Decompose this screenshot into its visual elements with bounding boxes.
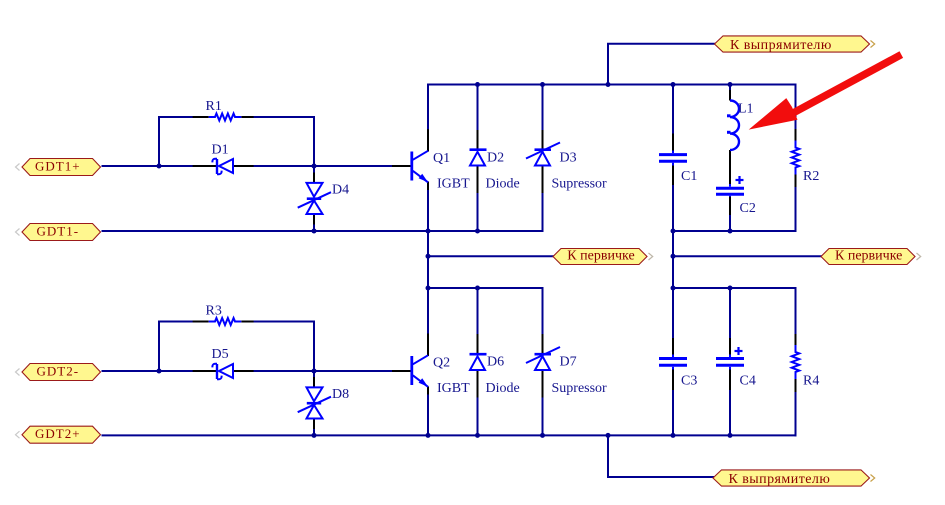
pin Q1 collector bbox=[427, 129, 429, 151]
wire D3 top bbox=[542, 85, 544, 131]
wire Q1 emitter lower bbox=[427, 190, 429, 231]
wire D2 top bbox=[477, 85, 479, 131]
pin D1 right bbox=[233, 165, 254, 167]
wire Q1 collector upper bbox=[427, 85, 429, 130]
node bus3 C4 bbox=[728, 286, 733, 291]
pin L1 top bbox=[729, 90, 731, 101]
node y231 C2 bbox=[728, 229, 733, 234]
diode D6 bbox=[470, 354, 487, 370]
wire to right pervichka flag bbox=[673, 255, 821, 257]
node GDT2+ flag bbox=[16, 426, 101, 443]
wire D8 bottom to GDT2+ net bbox=[313, 429, 315, 435]
pin Q1 emitter bbox=[427, 182, 429, 191]
node pervichka right bbox=[671, 254, 676, 259]
svg-text:GDT1-: GDT1- bbox=[37, 223, 80, 238]
wire L1 top bbox=[729, 85, 731, 91]
wire R2 bottom bbox=[795, 187, 797, 231]
svg-text:IGBT: IGBT bbox=[437, 177, 470, 192]
node bus4 C4 bbox=[728, 433, 733, 438]
svg-text:C3: C3 bbox=[681, 374, 697, 389]
pin L1 bottom joins C2 top bbox=[729, 150, 731, 186]
wire R1 loop top right bbox=[254, 116, 314, 118]
wire R4 bottom bbox=[795, 392, 797, 435]
suppressor D3 bbox=[526, 143, 560, 166]
wire D6 bottom bbox=[477, 398, 479, 436]
node K vypryamitelyu bottom flag bbox=[713, 470, 875, 486]
wire GDT2- net to D5 bbox=[103, 370, 193, 372]
pin D6 top bbox=[477, 334, 479, 354]
pin R2 top bbox=[795, 129, 797, 141]
wire C2 bottom bbox=[729, 215, 731, 231]
pin D5 right bbox=[233, 370, 254, 372]
node GDT1+ D4 bbox=[312, 164, 317, 169]
node y231 C1 bbox=[671, 229, 676, 234]
svg-text:GDT2-: GDT2- bbox=[37, 363, 80, 378]
resistor R3 bbox=[209, 318, 242, 325]
wire R3 loop top left bbox=[159, 321, 193, 323]
diode D1 bbox=[212, 159, 233, 174]
svg-text:D1: D1 bbox=[212, 143, 229, 158]
svg-text:D7: D7 bbox=[560, 355, 577, 370]
pin D3 bottom bbox=[542, 166, 544, 194]
wire GDT2+ bottom bus bbox=[103, 434, 796, 436]
pin C4 bottom bbox=[729, 368, 731, 391]
node GDT2- flag bbox=[16, 364, 101, 381]
node bus4 C3 bbox=[671, 433, 676, 438]
node bus3 C3 bbox=[671, 286, 676, 291]
pin C3 top bbox=[672, 338, 674, 356]
wire D3 bottom bbox=[542, 193, 544, 231]
wire riser to bottom flag bbox=[608, 435, 713, 477]
node bus3 Q2 bbox=[426, 286, 431, 291]
capacitor C4 polarized bbox=[716, 347, 744, 370]
pin C3 bottom bbox=[672, 368, 674, 391]
diode D2 bbox=[470, 150, 487, 166]
svg-text:D2: D2 bbox=[487, 151, 504, 166]
node bus4 D7 bbox=[540, 433, 545, 438]
pin Q2 collector bbox=[427, 334, 429, 357]
wire C4 bottom bbox=[729, 390, 731, 435]
wire riser to top flag bbox=[608, 44, 715, 85]
node GDT2- D8 bbox=[312, 369, 317, 374]
transistor Q2 bbox=[412, 355, 428, 387]
capacitor C1 bbox=[659, 151, 687, 166]
svg-text:C2: C2 bbox=[740, 201, 756, 216]
svg-text:D6: D6 bbox=[487, 355, 504, 370]
svg-text:Q1: Q1 bbox=[433, 151, 450, 166]
wire D1 to Q1 base bbox=[254, 165, 392, 167]
wire R1 loop right vertical down to D4 bbox=[313, 117, 315, 173]
svg-text:К первичке: К первичке bbox=[567, 248, 634, 263]
svg-text:К первичке: К первичке bbox=[835, 248, 902, 263]
node GDT2- R3 bbox=[157, 369, 162, 374]
pin C4 top bbox=[729, 338, 731, 356]
svg-text:Diode: Diode bbox=[486, 381, 520, 396]
svg-text:R4: R4 bbox=[803, 374, 819, 389]
suppressor D7 bbox=[526, 347, 560, 370]
svg-text:Supressor: Supressor bbox=[552, 381, 608, 396]
diode D5 bbox=[212, 364, 233, 379]
wire C1 top bbox=[672, 85, 674, 134]
pin D3 top bbox=[542, 130, 544, 150]
node bus4 D6 bbox=[475, 433, 480, 438]
suppressor D8 bbox=[298, 387, 331, 418]
wire right bridge vertical 673 bbox=[672, 231, 674, 288]
wire D5 to Q2 base bbox=[254, 370, 392, 372]
wire R3 loop right vertical down to D8 bbox=[313, 322, 315, 378]
node K vypryamitelyu top flag bbox=[715, 36, 875, 52]
wire R2 top bbox=[795, 85, 797, 130]
node bus4 D8 bbox=[312, 433, 317, 438]
pin R1 left bbox=[193, 116, 209, 118]
pin D8 top bbox=[313, 377, 315, 388]
annotation red arrow bbox=[749, 55, 902, 130]
svg-text:R2: R2 bbox=[803, 169, 819, 184]
pin R1 right bbox=[241, 116, 253, 118]
node top bus riser bbox=[606, 82, 611, 87]
wire Q2 collector upper bbox=[427, 288, 429, 334]
svg-text:D5: D5 bbox=[212, 347, 229, 362]
wire R1 loop left vertical bbox=[158, 117, 160, 166]
node bus4 riser bbox=[606, 433, 611, 438]
wire R3 loop top right bbox=[254, 321, 314, 323]
node top bus D2 bbox=[475, 82, 480, 87]
node GDT1+ flag bbox=[16, 159, 101, 176]
pin D1 left bbox=[193, 165, 216, 167]
pin D5 left bbox=[193, 370, 216, 372]
svg-text:IGBT: IGBT bbox=[437, 381, 470, 396]
wire R4 top bbox=[795, 288, 797, 334]
svg-text:C1: C1 bbox=[681, 169, 697, 184]
node GDT1- flag bbox=[16, 224, 101, 241]
transistor Q1 bbox=[412, 151, 428, 183]
svg-text:D8: D8 bbox=[332, 387, 349, 402]
pin D4 top bbox=[313, 173, 315, 184]
capacitor C3 bbox=[659, 355, 687, 370]
wire top bus bbox=[428, 84, 796, 86]
svg-text:L1: L1 bbox=[738, 102, 754, 117]
node GDT1- D2 bbox=[475, 229, 480, 234]
wire D7 bottom bbox=[542, 398, 544, 436]
wire R3 loop left vertical bbox=[158, 322, 160, 372]
wire left bridge vertical 428 bbox=[427, 231, 429, 288]
pin D6 bottom bbox=[477, 370, 479, 398]
node top bus C1 bbox=[671, 82, 676, 87]
wire GDT1- bus bbox=[103, 230, 543, 232]
pin Q2 base bbox=[392, 370, 411, 372]
wire D6 top bbox=[477, 288, 479, 334]
pin R3 left bbox=[193, 321, 209, 323]
node bus4 Q2 emitter bbox=[426, 433, 431, 438]
svg-text:GDT1+: GDT1+ bbox=[35, 158, 81, 173]
inductor L1 bbox=[727, 101, 739, 151]
resistor R2 bbox=[792, 141, 800, 175]
pin R3 right bbox=[241, 321, 253, 323]
svg-text:К выпрямителю: К выпрямителю bbox=[730, 38, 832, 53]
node top bus L1 bbox=[728, 82, 733, 87]
pin R2 bottom bbox=[795, 175, 797, 188]
wire C1 bottom bbox=[672, 185, 674, 231]
suppressor D4 bbox=[298, 183, 331, 214]
pin D7 top bbox=[542, 334, 544, 354]
node pervichka left bbox=[426, 254, 431, 259]
svg-text:D4: D4 bbox=[332, 183, 349, 198]
node GDT1+ R1 bbox=[157, 164, 162, 169]
wire R1 loop top left bbox=[159, 116, 193, 118]
wire C-bus right y231 bbox=[673, 230, 796, 232]
pin D4 bottom bbox=[313, 214, 315, 225]
wire D2 bottom bbox=[477, 193, 479, 231]
pin D2 bottom bbox=[477, 166, 479, 194]
node top bus D3 bbox=[540, 82, 545, 87]
svg-text:К выпрямителю: К выпрямителю bbox=[729, 472, 831, 487]
wire D7 top bbox=[542, 288, 544, 334]
pin Q2 emitter bbox=[427, 387, 429, 395]
pin C1 top bbox=[672, 134, 674, 152]
pin D8 bottom bbox=[313, 419, 315, 430]
wire GDT1+ net to D1 bbox=[103, 165, 193, 167]
svg-text:Q2: Q2 bbox=[433, 356, 450, 371]
svg-text:GDT2+: GDT2+ bbox=[35, 426, 81, 441]
pin C1 bottom bbox=[672, 164, 674, 185]
node GDT1- Q1 emitter bbox=[426, 229, 431, 234]
svg-text:D3: D3 bbox=[560, 151, 577, 166]
wire C3 top bbox=[672, 288, 674, 338]
node GDT1- D4 bbox=[312, 229, 317, 234]
pin D2 top bbox=[477, 130, 479, 150]
node K pervichke right flag bbox=[821, 249, 921, 265]
svg-text:Diode: Diode bbox=[486, 177, 520, 192]
resistor R4 bbox=[792, 345, 800, 379]
svg-text:C4: C4 bbox=[740, 374, 756, 389]
svg-text:Supressor: Supressor bbox=[552, 177, 608, 192]
wire Q2 emitter lower bbox=[427, 395, 429, 436]
wire C4 top bbox=[729, 288, 731, 338]
wire D4 bottom to GDT1- net bbox=[313, 225, 315, 232]
pin D7 bottom bbox=[542, 370, 544, 398]
pin C2 bottom bbox=[729, 197, 731, 216]
svg-text:R3: R3 bbox=[206, 304, 222, 319]
pin R4 top bbox=[795, 334, 797, 345]
node K pervichke left flag bbox=[553, 249, 653, 265]
wire lower section top bus right bbox=[673, 287, 796, 289]
wire to left pervichka flag bbox=[428, 255, 553, 257]
wire lower section top bus left bbox=[428, 287, 543, 289]
pin Q1 base bbox=[392, 165, 411, 167]
capacitor C2 polarized bbox=[716, 176, 744, 197]
node bus3 D6 bbox=[475, 286, 480, 291]
resistor R1 bbox=[209, 114, 242, 121]
pin R4 bottom bbox=[795, 379, 797, 392]
wire C3 bottom bbox=[672, 390, 674, 435]
svg-text:R1: R1 bbox=[206, 99, 222, 114]
